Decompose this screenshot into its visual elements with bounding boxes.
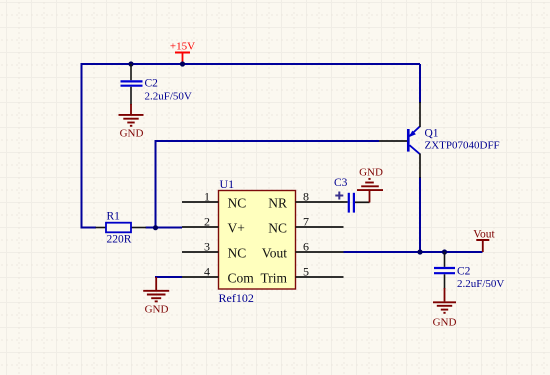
svg-text:8: 8 xyxy=(303,189,309,203)
svg-text:6: 6 xyxy=(303,239,309,253)
pin 8 NR xyxy=(268,189,343,210)
ground GND at C2 bottom xyxy=(433,288,457,329)
svg-text:2.2uF/50V: 2.2uF/50V xyxy=(457,278,504,290)
svg-text:2: 2 xyxy=(204,214,210,228)
svg-text:ZXTP07040DFF: ZXTP07040DFF xyxy=(425,139,500,151)
svg-text:NC: NC xyxy=(228,195,247,210)
svg-text:Vout: Vout xyxy=(473,228,495,240)
svg-text:4: 4 xyxy=(204,264,210,278)
svg-text:NC: NC xyxy=(228,245,247,260)
svg-text:V+: V+ xyxy=(228,220,245,235)
pin 5 Trim xyxy=(260,264,343,285)
wire R1 to V+ node xyxy=(146,227,183,229)
junction node at Q1 collector / output xyxy=(417,249,422,254)
junction node at V+ xyxy=(153,225,158,230)
transistor Q1 (PNP) xyxy=(379,102,420,178)
resistor R1 xyxy=(96,223,147,233)
svg-text:GND: GND xyxy=(359,167,383,179)
pin 6 Vout xyxy=(262,239,344,260)
wire emitter drop xyxy=(419,64,421,103)
pin 4 Com xyxy=(182,264,254,285)
junction node at C2 bottom xyxy=(442,249,447,254)
svg-text:GND: GND xyxy=(145,304,169,316)
capacitor C3 (polarized) xyxy=(335,192,369,213)
svg-text:C2: C2 xyxy=(457,266,471,278)
power port +15V xyxy=(170,41,195,65)
pin 2 V+ xyxy=(182,214,245,235)
svg-text:5: 5 xyxy=(303,264,309,278)
ground GND at pin 4 Com xyxy=(143,277,182,316)
junction node at +15V xyxy=(180,61,185,66)
svg-text:U1: U1 xyxy=(220,177,235,191)
svg-text:NC: NC xyxy=(268,220,287,235)
svg-text:Vout: Vout xyxy=(262,245,288,260)
wire base riser xyxy=(155,141,157,228)
power port Vout xyxy=(473,228,495,252)
pin 3 NC xyxy=(182,239,246,260)
svg-text:GND: GND xyxy=(120,128,144,140)
wire output rail to Vout xyxy=(344,251,483,253)
svg-text:C2: C2 xyxy=(145,78,159,90)
svg-text:1: 1 xyxy=(204,189,210,203)
capacitor C2 (bottom) xyxy=(434,252,455,289)
wire top rail from left corner to Q1 emitter column xyxy=(82,63,421,65)
svg-text:Trim: Trim xyxy=(260,270,287,285)
svg-text:7: 7 xyxy=(303,214,309,228)
svg-text:Ref102: Ref102 xyxy=(219,291,254,305)
svg-text:Q1: Q1 xyxy=(425,128,439,140)
junction node at C2 top xyxy=(128,61,133,66)
svg-text:R1: R1 xyxy=(107,211,121,223)
wire left rail vertical xyxy=(81,63,83,229)
ground GND under C2 top xyxy=(119,104,144,140)
svg-text:Com: Com xyxy=(228,270,255,285)
svg-text:+15V: +15V xyxy=(170,41,195,53)
wire base run to Q1 xyxy=(155,140,380,142)
op-amp U1 body (Ref102) xyxy=(219,191,296,290)
ground GND at C3 (rotated) xyxy=(357,167,383,203)
capacitor C2 (top) xyxy=(121,64,143,105)
wire collector drop to output rail xyxy=(419,177,421,252)
pin 1 NC xyxy=(182,189,246,210)
svg-text:C3: C3 xyxy=(334,177,348,189)
svg-text:220R: 220R xyxy=(107,233,132,245)
svg-text:3: 3 xyxy=(204,239,210,253)
svg-text:NR: NR xyxy=(268,195,287,210)
svg-text:2.2uF/50V: 2.2uF/50V xyxy=(145,91,192,103)
svg-text:GND: GND xyxy=(433,317,457,329)
wire left rail to R1 xyxy=(81,227,97,229)
pin 7 NC xyxy=(268,214,343,235)
